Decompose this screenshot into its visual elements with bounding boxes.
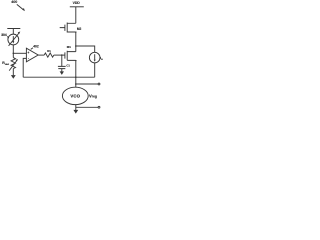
svg-text:+: + [27,51,29,55]
svg-text:VCO: VCO [70,93,80,98]
svg-text:-: - [28,57,29,61]
svg-text:304: 304 [1,33,7,37]
svg-text:M1: M1 [67,45,71,49]
svg-text:reg: reg [92,95,97,99]
svg-text:402: 402 [33,45,39,49]
svg-text:VAR: VAR [5,63,10,66]
svg-text:B: B [101,59,103,61]
svg-text:C1: C1 [66,63,70,67]
svg-text:R1: R1 [47,49,51,53]
svg-text:VDD: VDD [73,1,81,5]
svg-text:400: 400 [11,0,17,4]
svg-text:M2: M2 [77,27,82,31]
